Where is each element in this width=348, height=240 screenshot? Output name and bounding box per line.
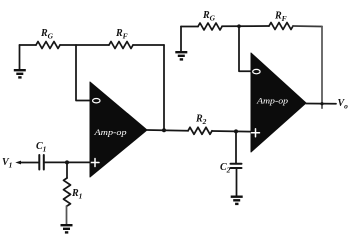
resistor R2 (188, 114, 212, 135)
resistor R1 (64, 162, 83, 224)
wire stage1 top-left segment (20, 44, 37, 46)
wire RG1/RF1 junction down to inverting input (76, 45, 90, 101)
wire feedback vertical to output node (163, 45, 165, 130)
resistor RF2 (269, 11, 293, 30)
ground G2 (175, 27, 187, 61)
ground G4 (231, 196, 243, 206)
op-amp U2 (251, 53, 306, 152)
wire stage2 top-left segment (181, 26, 198, 28)
resistor RF1 (109, 28, 133, 49)
wire U1 output to R2 (147, 129, 188, 132)
wire between RG2 and RF2 (222, 25, 269, 27)
op-amp U1 (90, 82, 147, 177)
node RG2/RF2 junction (237, 24, 241, 28)
node U2 output / feedback junction (321, 104, 323, 109)
svg-text:Amp-op: Amp-op (256, 97, 288, 106)
resistor RG2 (198, 10, 222, 30)
capacitor C2 (220, 131, 242, 195)
ground G3 (61, 224, 73, 234)
wire R2 to non-inverting input of U2 (212, 130, 251, 133)
wire feedback vertical to output node of U2 (321, 27, 323, 104)
wire RF2 to feedback corner (293, 25, 322, 28)
node C1/R1 junction (65, 160, 69, 164)
capacitor C1 (36, 141, 46, 170)
wire C1 to non-inverting input (45, 161, 90, 163)
wire RF1 to feedback corner (133, 44, 164, 46)
ground G1 (14, 45, 26, 79)
svg-text:Amp-op: Amp-op (93, 128, 126, 137)
wire junction down to inverting input of U2 (239, 26, 251, 71)
node output of U1 / feedback junction (162, 128, 166, 132)
input V1 label and arrow (2, 157, 39, 170)
wire U2 output to Vo (306, 103, 336, 105)
node R2/C2 junction (234, 129, 238, 133)
wire between RG1 and RF1 (60, 44, 109, 46)
resistor RG1 (36, 28, 60, 49)
